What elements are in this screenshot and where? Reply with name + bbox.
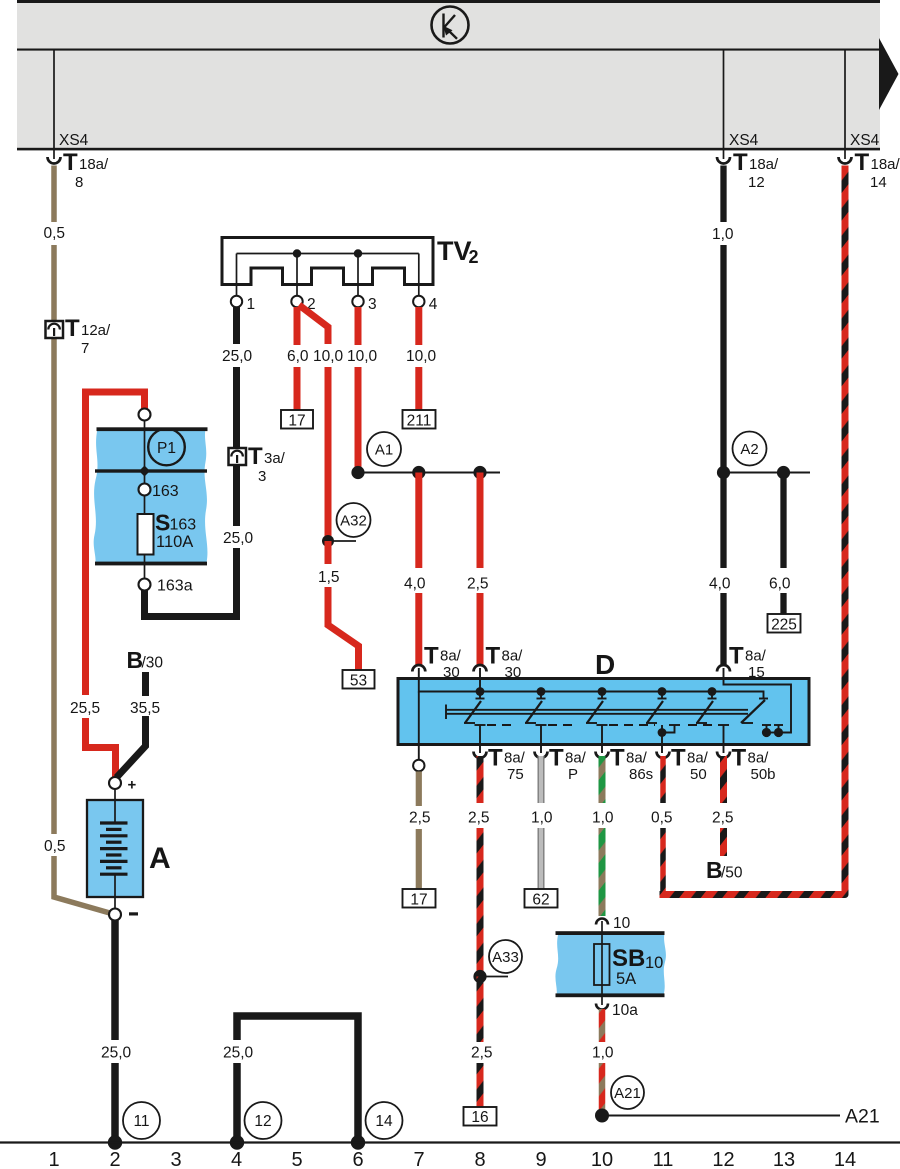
terminal circle above P1 <box>139 409 151 421</box>
output cup T8a/P <box>535 752 548 759</box>
wire brown 2,5 col7 <box>416 772 422 807</box>
svg-text:A32: A32 <box>340 513 367 530</box>
svg-text:T: T <box>733 149 748 176</box>
svg-text:50b: 50b <box>751 766 776 783</box>
svg-text:225: 225 <box>771 617 797 634</box>
svg-text:13: 13 <box>773 1149 795 1169</box>
band inner divider line <box>17 49 879 51</box>
svg-text:T: T <box>549 745 564 772</box>
battery A body <box>87 800 143 897</box>
connector pin XS4 col12 <box>723 50 725 159</box>
connector T3a/3 <box>229 443 286 485</box>
wire black 6,0 A2 to 225 <box>780 473 786 569</box>
wire brown 0,5 col1 upper <box>51 166 57 223</box>
svg-text:12a/: 12a/ <box>81 322 111 339</box>
SB10 fuse body (torn edges) <box>555 933 665 995</box>
wire red 10,0 from TV2 pin3 <box>355 307 362 345</box>
svg-text:50: 50 <box>690 766 707 783</box>
output cup T8a/50 <box>657 752 670 759</box>
P1 circle <box>148 429 185 466</box>
svg-text:16: 16 <box>471 1109 488 1126</box>
junction dot A1-2 <box>412 466 425 479</box>
svg-text:T: T <box>486 643 501 670</box>
TV2 pin 2 <box>291 296 302 307</box>
SB10 top bar <box>556 931 665 935</box>
svg-text:75: 75 <box>507 766 524 783</box>
input cup T8a/30 b <box>474 665 487 672</box>
svg-text:163: 163 <box>170 517 197 534</box>
svg-text:163a: 163a <box>157 578 193 595</box>
svg-text:SB: SB <box>612 945 645 972</box>
svg-text:10a: 10a <box>612 1002 638 1019</box>
output cup T8a/86s <box>596 752 609 759</box>
svg-text:14: 14 <box>870 174 887 191</box>
fuse S163 symbol <box>138 514 154 555</box>
svg-text:8a/: 8a/ <box>504 750 526 767</box>
svg-text:1,0: 1,0 <box>712 226 734 243</box>
ground strap wire 25,0 col4-col6 <box>233 1063 241 1143</box>
junction dot TV2 pin2 <box>293 249 301 257</box>
battery minus terminal <box>109 909 121 921</box>
svg-text:10: 10 <box>613 915 631 932</box>
fuse input cup 10 <box>596 919 608 925</box>
junction dot A21 <box>595 1109 609 1123</box>
terminal cup T18a/12 <box>717 157 730 164</box>
junction dot A33 <box>473 970 486 983</box>
internal lead through SB10 <box>601 921 603 1005</box>
svg-text:0,5: 0,5 <box>651 810 673 827</box>
svg-text:2: 2 <box>469 247 479 267</box>
terminal box 211 <box>403 410 436 429</box>
wire red 1,5 to 53 <box>325 541 332 564</box>
svg-text:2,5: 2,5 <box>712 810 734 827</box>
wire black 4,0 A2 to D15 <box>720 473 726 569</box>
connector pin XS4 col14 <box>844 50 846 159</box>
svg-text:18a/: 18a/ <box>79 156 109 173</box>
input cup T8a/30 a <box>412 665 425 672</box>
svg-text:/30: /30 <box>142 655 164 672</box>
output cup T8a/75 <box>474 752 487 759</box>
wire brown 0,5 col1 main <box>51 245 57 834</box>
terminal 163 <box>139 484 151 496</box>
label circle A33 <box>489 940 522 973</box>
terminal box 17 upper <box>281 410 313 429</box>
svg-text:6,0: 6,0 <box>769 576 791 593</box>
svg-text:4: 4 <box>231 1149 242 1169</box>
output cup T8a/50b <box>717 752 730 759</box>
svg-text:XS4: XS4 <box>59 132 89 149</box>
svg-text:2: 2 <box>109 1149 120 1169</box>
svg-text:12: 12 <box>748 174 765 191</box>
fuse box body (torn edges) <box>94 429 208 563</box>
svg-text:5A: 5A <box>616 970 636 988</box>
wire red 10,0 from TV2 pin2 diagonal <box>299 305 328 344</box>
svg-text:1,0: 1,0 <box>531 810 553 827</box>
svg-text:8a/: 8a/ <box>745 648 767 665</box>
svg-text:T: T <box>424 643 439 670</box>
svg-text:8a/: 8a/ <box>502 648 524 665</box>
wire black 25,0 below T3a <box>233 465 240 526</box>
svg-text:14: 14 <box>375 1113 393 1130</box>
svg-text:1: 1 <box>247 296 256 313</box>
junction dot A2-1 <box>717 466 730 479</box>
svg-text:1,5: 1,5 <box>318 569 340 586</box>
svg-text:+: + <box>128 777 137 794</box>
svg-text:8a/: 8a/ <box>440 648 462 665</box>
svg-text:A33: A33 <box>492 949 519 966</box>
svg-text:25,5: 25,5 <box>70 700 100 717</box>
label circle A2 <box>733 432 767 466</box>
label circle A32 <box>337 503 371 537</box>
terminal cup T18a/8 <box>48 157 61 164</box>
svg-text:0,5: 0,5 <box>44 225 66 242</box>
input cup T8a/15 <box>717 665 730 672</box>
svg-text:11: 11 <box>653 1149 674 1169</box>
svg-text:T: T <box>729 643 744 670</box>
svg-text:T: T <box>65 315 80 342</box>
TV2 internal bus <box>237 253 419 255</box>
wire red/black 2,5 to A33 <box>477 756 484 803</box>
ground point 4 dot <box>230 1135 244 1149</box>
svg-text:A1: A1 <box>375 442 393 459</box>
svg-text:2,5: 2,5 <box>467 576 489 593</box>
D output stems <box>475 725 730 753</box>
svg-text:17: 17 <box>288 413 305 430</box>
TV2 pin 3 <box>352 296 363 307</box>
wire black 25,0 battery to ground 2 <box>111 921 119 1041</box>
junction dot A1-3 <box>473 466 486 479</box>
label circle 11 <box>123 1102 160 1139</box>
leader line to A21 label <box>602 1115 840 1117</box>
label circle A21 <box>611 1076 644 1109</box>
fuse box top bar <box>97 427 208 431</box>
svg-text:XS4: XS4 <box>729 132 759 149</box>
svg-text:10: 10 <box>591 1149 613 1169</box>
K direction symbol <box>432 7 469 44</box>
svg-text:T: T <box>610 745 625 772</box>
svg-text:2,5: 2,5 <box>468 810 490 827</box>
node A1 bus line <box>358 472 500 474</box>
node A2 bus line <box>724 472 811 474</box>
svg-text:TV: TV <box>437 236 472 266</box>
track numbers 1-14 <box>48 1149 856 1169</box>
svg-text:A2: A2 <box>740 441 758 458</box>
svg-text:35,5: 35,5 <box>130 700 160 717</box>
svg-text:10: 10 <box>645 954 663 972</box>
svg-text:1: 1 <box>48 1149 59 1169</box>
svg-text:10,0: 10,0 <box>347 348 378 365</box>
svg-text:17: 17 <box>410 892 427 909</box>
svg-text:T: T <box>855 149 870 176</box>
continuation arrow <box>879 38 899 110</box>
svg-text:S: S <box>155 510 170 536</box>
label circle 12 <box>245 1102 282 1139</box>
leader line A33 <box>480 976 508 978</box>
svg-text:3: 3 <box>258 468 266 485</box>
terminal 163a <box>139 579 151 591</box>
bottom track line <box>0 1141 900 1143</box>
label circle A1 <box>367 432 401 466</box>
wire red 25,5 lower <box>86 718 116 780</box>
wire red/brown 1,0 to A21 <box>599 1009 606 1042</box>
svg-text:53: 53 <box>350 673 367 690</box>
battery plates <box>100 823 128 874</box>
D output terminal circle col7 <box>413 760 424 771</box>
svg-text:8a/: 8a/ <box>748 750 770 767</box>
harness bus band <box>17 2 880 148</box>
junction dot A2-2 <box>777 466 790 479</box>
svg-text:XS4: XS4 <box>850 132 880 149</box>
battery internal lead top <box>114 789 116 824</box>
svg-text:10,0: 10,0 <box>313 348 344 365</box>
terminal box 17 lower <box>403 889 436 908</box>
label circle 14 <box>366 1102 403 1139</box>
wire grey 1,0 to 62 <box>538 756 545 889</box>
connector TV2 body <box>222 238 433 285</box>
svg-text:6: 6 <box>352 1149 363 1169</box>
svg-text:3: 3 <box>368 296 377 313</box>
D fixed contacts under rail <box>476 692 769 699</box>
wire black 35,5 from B/30 <box>142 672 149 696</box>
svg-text:8: 8 <box>474 1149 485 1169</box>
svg-text:A21: A21 <box>845 1106 880 1128</box>
svg-text:A21: A21 <box>614 1085 641 1102</box>
svg-text:P: P <box>568 766 578 783</box>
junction dot A32 <box>322 535 334 547</box>
junction diamond <box>139 466 150 477</box>
svg-text:12: 12 <box>712 1149 734 1169</box>
fuse output cup 10a <box>596 1004 608 1010</box>
svg-text:4,0: 4,0 <box>709 576 731 593</box>
terminal cup T18a/14 <box>839 157 852 164</box>
svg-text:/50: /50 <box>721 865 743 882</box>
svg-text:3: 3 <box>170 1149 181 1169</box>
wire red/black 2,5 to B/50 <box>720 756 727 803</box>
D mechanical link dashed <box>487 724 717 726</box>
svg-text:T: T <box>248 443 263 470</box>
D blade foot ticks <box>464 722 753 724</box>
svg-text:25,0: 25,0 <box>223 1045 254 1062</box>
svg-text:8: 8 <box>75 174 83 191</box>
D switch blades <box>465 700 765 723</box>
svg-text:8a/: 8a/ <box>626 750 648 767</box>
svg-text:5: 5 <box>291 1149 302 1169</box>
svg-text:10,0: 10,0 <box>406 348 437 365</box>
fuse box mid bar <box>95 469 207 472</box>
wire red 2,5 A1 to D30 <box>477 473 484 569</box>
svg-text:4: 4 <box>429 296 438 313</box>
SB10 bottom bar <box>556 993 665 997</box>
wire red 4,0 A1 to D30 <box>415 473 422 569</box>
wire green/brown 1,0 to SB10 <box>599 756 606 803</box>
ground point 2 dot <box>108 1135 122 1149</box>
connector T12a/7 <box>46 315 112 357</box>
wire red/black T18a/14 long <box>660 166 846 895</box>
svg-text:12: 12 <box>254 1113 271 1130</box>
terminal box 62 <box>525 889 558 908</box>
svg-text:11: 11 <box>133 1113 149 1130</box>
connector pin XS4 col1 <box>53 50 55 159</box>
svg-text:1,0: 1,0 <box>592 1045 614 1062</box>
svg-text:9: 9 <box>535 1149 546 1169</box>
svg-text:110A: 110A <box>156 533 193 551</box>
svg-text:7: 7 <box>81 340 89 357</box>
svg-text:8a/: 8a/ <box>565 750 587 767</box>
battery internal lead bottom <box>114 875 116 909</box>
D contact 50 bracket <box>662 725 680 753</box>
fuse SB10 symbol <box>594 944 610 985</box>
terminal box 16 <box>464 1107 497 1126</box>
svg-text:0,5: 0,5 <box>44 838 66 855</box>
svg-text:25,0: 25,0 <box>222 348 253 365</box>
D leftmost output line <box>418 692 420 761</box>
TV2 pin 4 <box>413 296 424 307</box>
svg-text:2,5: 2,5 <box>409 810 431 827</box>
D right contact pair <box>762 725 783 733</box>
D internal top rail <box>419 668 791 733</box>
svg-text:25,0: 25,0 <box>101 1045 132 1062</box>
svg-text:T: T <box>63 149 78 176</box>
ground point 6 dot <box>351 1135 365 1149</box>
wire red 6,0 from TV2 pin2 <box>294 307 301 345</box>
svg-text:18a/: 18a/ <box>871 156 900 173</box>
svg-text:62: 62 <box>532 892 549 909</box>
wire black 25,0 from TV2 pin1 <box>233 307 240 344</box>
svg-text:14: 14 <box>834 1149 856 1169</box>
svg-text:2,5: 2,5 <box>471 1045 493 1062</box>
band bottom border <box>17 148 880 151</box>
wire red/black 0,5 from T8a/50 <box>660 756 666 803</box>
svg-text:A: A <box>149 842 171 875</box>
svg-text:D: D <box>595 649 615 680</box>
svg-text:211: 211 <box>407 413 432 430</box>
svg-text:3a/: 3a/ <box>264 450 286 467</box>
terminal box 53 <box>343 670 375 689</box>
svg-text:25,0: 25,0 <box>223 530 254 547</box>
junction dot A1-1 <box>351 466 364 479</box>
junction dot TV2 pin3 <box>354 249 362 257</box>
svg-text:P1: P1 <box>157 440 176 457</box>
terminal box 225 <box>768 614 801 633</box>
leader line A32 <box>328 540 356 542</box>
svg-text:86s: 86s <box>629 766 653 783</box>
TV2 pin 1 <box>231 296 242 307</box>
svg-text:T: T <box>671 745 686 772</box>
ignition switch D body <box>398 679 809 745</box>
svg-text:T: T <box>488 745 503 772</box>
D contact dots on rail <box>476 687 485 696</box>
wire black 1,0 col12 from T18a/12 <box>720 166 726 223</box>
D moving contact double bar <box>446 705 748 720</box>
svg-text:1,0: 1,0 <box>592 810 614 827</box>
internal wire through fuse <box>144 421 146 580</box>
battery plus terminal <box>109 777 121 789</box>
svg-text:6,0: 6,0 <box>287 348 309 365</box>
wire red 25,5 upper <box>86 392 145 695</box>
band top border <box>17 0 880 3</box>
svg-text:T: T <box>732 745 747 772</box>
svg-text:8a/: 8a/ <box>687 750 709 767</box>
wire red/black 2,5 to 16 <box>477 977 484 1043</box>
svg-text:18a/: 18a/ <box>749 156 779 173</box>
wire red 10,0 from TV2 pin4 <box>415 307 422 345</box>
svg-text:7: 7 <box>413 1149 424 1169</box>
svg-text:4,0: 4,0 <box>404 576 426 593</box>
svg-text:163: 163 <box>152 483 179 500</box>
fuse box bottom bar <box>95 562 207 566</box>
